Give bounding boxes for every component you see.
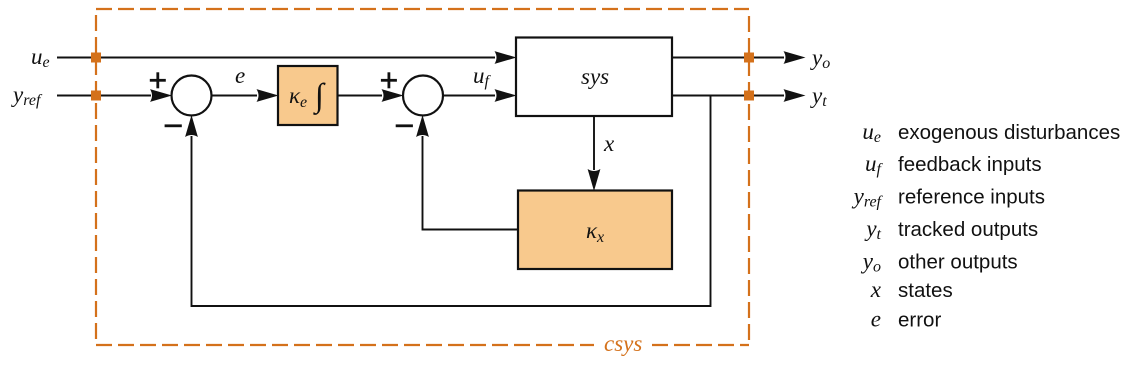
legend row x xyxy=(870,277,953,302)
svg-text:yref: yref xyxy=(852,184,884,211)
svg-text:yt: yt xyxy=(810,83,827,110)
wire y_t xyxy=(672,89,806,102)
svg-text:e: e xyxy=(235,63,245,88)
wire u_e xyxy=(57,51,517,64)
svg-text:ue: ue xyxy=(31,44,50,71)
boundary marker square y_t right xyxy=(744,91,754,101)
summing junction S2 xyxy=(403,76,443,116)
summing junction S1 xyxy=(172,76,212,116)
wire y_t feedback to S1 xyxy=(185,96,710,307)
legend row y_o xyxy=(861,249,1018,276)
wire u_f xyxy=(443,89,517,102)
boundary marker square y_ref left xyxy=(91,91,101,101)
plus sign at S1 xyxy=(150,72,166,88)
minus sign at S1 xyxy=(165,124,182,127)
wire y_ref xyxy=(57,89,172,102)
wire e xyxy=(212,89,279,102)
svg-text:states: states xyxy=(898,279,953,302)
plus sign at S2 xyxy=(381,72,397,88)
wire K_e to S2 xyxy=(338,89,404,102)
svg-text:feedback inputs: feedback inputs xyxy=(898,153,1042,176)
svg-text:yo: yo xyxy=(810,45,830,72)
legend row u_f xyxy=(865,151,1042,178)
svg-text:yt: yt xyxy=(864,216,881,243)
svg-text:yref: yref xyxy=(11,82,43,109)
svg-text:uf: uf xyxy=(865,151,884,178)
svg-text:ue: ue xyxy=(862,119,881,146)
svg-text:csys: csys xyxy=(604,331,642,356)
dashed boundary csys xyxy=(96,9,749,345)
legend row y_ref xyxy=(852,184,1045,211)
legend row u_e xyxy=(862,119,1120,146)
legend row y_t xyxy=(864,216,1038,243)
svg-text:sys: sys xyxy=(581,64,609,89)
wire y_o xyxy=(672,51,806,64)
svg-text:x: x xyxy=(603,131,615,156)
svg-text:tracked outputs: tracked outputs xyxy=(898,218,1038,241)
svg-text:exogenous disturbances: exogenous disturbances xyxy=(898,121,1120,144)
boundary marker square y_o right xyxy=(744,53,754,63)
svg-text:reference inputs: reference inputs xyxy=(898,186,1045,209)
minus sign at S2 xyxy=(396,124,413,127)
svg-text:uf: uf xyxy=(473,63,492,90)
wire K_x feedback to S2 xyxy=(416,115,518,230)
svg-text:e: e xyxy=(871,307,881,332)
legend row e xyxy=(871,307,942,332)
svg-text:yo: yo xyxy=(861,249,881,276)
wire x (sys to K_x) xyxy=(588,116,601,191)
block sys xyxy=(516,38,672,117)
svg-text:x: x xyxy=(870,277,882,302)
block K_x xyxy=(518,191,672,270)
boundary marker square u_e left xyxy=(91,53,101,63)
svg-text:error: error xyxy=(898,309,941,332)
block K_e integrator xyxy=(278,66,338,125)
svg-text:other outputs: other outputs xyxy=(898,251,1018,274)
